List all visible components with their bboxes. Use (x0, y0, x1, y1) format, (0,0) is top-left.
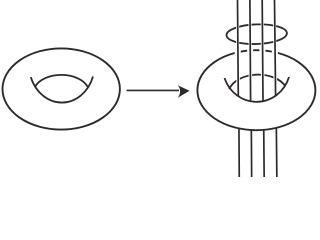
right torus outer ellipse (197, 50, 315, 130)
strand 3 upper segment (261, 0, 264, 101)
left torus hole bottom arc (31, 77, 93, 103)
left torus outer ellipse (3, 48, 120, 129)
right torus hole bottom arc (225, 77, 290, 102)
arrowhead (178, 85, 190, 97)
strand halos over outer ellipse top arc (wider gaps) (238, 46, 275, 57)
arrow shaft (127, 89, 180, 91)
strand 1 upper segment (237, 0, 240, 96)
strand 2 upper segment (249, 0, 252, 101)
strand 4 upper segment (275, 0, 276, 96)
strand halos over hole top arc (medium gaps) (238, 57, 276, 101)
strand halos over ring (small gaps) (238, 0, 275, 46)
left torus hole top arc (35, 75, 88, 87)
ring ellipse around strands (226, 23, 287, 45)
strand 1 lower segment (238, 128, 240, 177)
strand 3 lower segment (263, 130, 265, 177)
strand 4 lower segment (275, 128, 278, 177)
strand 2 lower segment (250, 130, 252, 177)
right torus hole top arc (229, 75, 285, 90)
